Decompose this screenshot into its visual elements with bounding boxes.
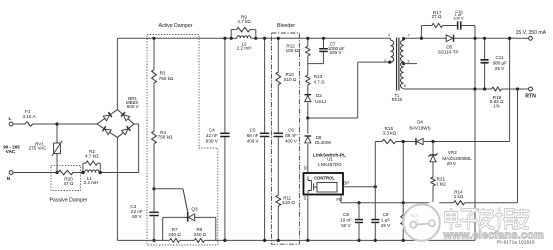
svg-text:240 Ω: 240 Ω <box>168 232 181 237</box>
svg-text:PI-6171a 102910: PI-6171a 102910 <box>497 240 535 245</box>
svg-text:D: D <box>304 166 307 171</box>
svg-text:R16: R16 <box>410 213 419 218</box>
svg-text:22 nF: 22 nF <box>206 133 218 138</box>
svg-text:27 Ω: 27 Ω <box>432 14 442 19</box>
svg-text:Passive Damper: Passive Damper <box>49 197 87 203</box>
svg-text:Q3: Q3 <box>191 206 198 211</box>
svg-text:C8: C8 <box>343 212 349 217</box>
svg-text:240 Ω: 240 Ω <box>194 232 207 237</box>
svg-text:C11: C11 <box>495 55 504 60</box>
svg-text:68 nF: 68 nF <box>247 133 259 138</box>
svg-text:C4: C4 <box>209 128 215 133</box>
svg-text:BAV19WS: BAV19WS <box>409 126 430 131</box>
svg-text:4.7 kΩ: 4.7 kΩ <box>85 153 99 158</box>
svg-text:FB: FB <box>336 197 342 202</box>
svg-text:CONTROL: CONTROL <box>314 175 335 180</box>
svg-text:25 V: 25 V <box>381 223 391 228</box>
svg-text:2.2 mH: 2.2 mH <box>84 180 99 185</box>
svg-text:EE16: EE16 <box>392 97 403 102</box>
svg-text:68 nF: 68 nF <box>285 133 297 138</box>
svg-text:20 V: 20 V <box>447 161 457 166</box>
svg-text:90 - 265: 90 - 265 <box>3 144 20 149</box>
svg-text:1%: 1% <box>493 103 500 108</box>
svg-text:680 µF: 680 µF <box>493 61 508 66</box>
svg-text:RTN: RTN <box>525 93 536 99</box>
svg-text:510 Ω: 510 Ω <box>284 77 297 82</box>
svg-text:1 µF: 1 µF <box>381 218 390 223</box>
svg-text:4.7 Ω: 4.7 Ω <box>313 79 325 84</box>
svg-text:D2: D2 <box>316 93 322 98</box>
svg-text:275 VAC: 275 VAC <box>29 146 48 151</box>
svg-text:SS110-TP: SS110-TP <box>438 49 459 54</box>
svg-text:US1J: US1J <box>315 99 326 104</box>
svg-text:Active Damper: Active Damper <box>158 23 192 29</box>
svg-text:R13: R13 <box>314 74 323 79</box>
svg-text:25 V: 25 V <box>495 66 505 71</box>
svg-text:C5: C5 <box>250 128 256 133</box>
svg-text:750 kΩ: 750 kΩ <box>158 134 173 139</box>
svg-text:Bleeder: Bleeder <box>277 23 295 29</box>
svg-text:100 V: 100 V <box>453 15 464 20</box>
svg-text:C6: C6 <box>288 128 294 133</box>
svg-text:600 V: 600 V <box>127 104 140 109</box>
svg-text:LNK457DG: LNK457DG <box>318 162 342 167</box>
svg-text:N: N <box>7 176 11 182</box>
svg-text:3.15 A: 3.15 A <box>22 114 36 119</box>
svg-text:1 kΩ: 1 kΩ <box>436 181 446 186</box>
svg-text:10 nF: 10 nF <box>340 218 352 223</box>
svg-text:VAC: VAC <box>6 149 16 155</box>
svg-text:2.2 mH: 2.2 mH <box>237 46 252 51</box>
svg-text:400 V: 400 V <box>285 138 298 143</box>
svg-text:DL4006: DL4006 <box>315 140 332 145</box>
svg-text:50 V: 50 V <box>341 223 351 228</box>
svg-text:15 V, 350 mA: 15 V, 350 mA <box>516 30 547 36</box>
svg-text:C9: C9 <box>383 212 389 217</box>
svg-text:R3: R3 <box>160 71 166 76</box>
svg-text:3.3 kΩ: 3.3 kΩ <box>383 131 397 136</box>
svg-text:50 V: 50 V <box>132 214 142 219</box>
svg-text:47 Ω: 47 Ω <box>64 181 74 186</box>
svg-text:630 V: 630 V <box>329 50 342 55</box>
svg-text:VR2: VR2 <box>448 150 457 155</box>
svg-text:BP: BP <box>343 181 349 186</box>
svg-text:1 kΩ: 1 kΩ <box>454 194 464 199</box>
svg-text:630 V: 630 V <box>206 138 219 143</box>
svg-text:L: L <box>9 116 12 122</box>
svg-text:S: S <box>303 195 306 200</box>
svg-text:400 V: 400 V <box>247 138 260 143</box>
svg-text:750 kΩ: 750 kΩ <box>159 76 174 81</box>
svg-text:510 Ω: 510 Ω <box>282 200 295 205</box>
svg-text:100 kΩ: 100 kΩ <box>286 48 301 53</box>
svg-text:D4: D4 <box>417 119 423 124</box>
svg-text:4.7 kΩ: 4.7 kΩ <box>237 19 251 24</box>
